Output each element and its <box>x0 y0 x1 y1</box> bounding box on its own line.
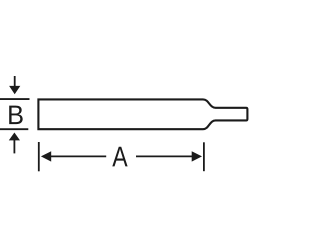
dimension B down arrowhead <box>9 86 20 94</box>
label A <box>112 147 127 167</box>
dimension B bottom extension line <box>0 128 28 130</box>
dimension A left extension line <box>38 142 40 171</box>
dimension A left arrowhead <box>41 151 51 161</box>
file body outline with tang <box>38 99 247 129</box>
dimension A left shaft <box>51 155 107 157</box>
dimension A right shaft <box>136 155 193 157</box>
dimension B up arrow stem <box>13 140 15 154</box>
label B <box>9 106 22 125</box>
dimension B top extension line <box>0 98 30 100</box>
dimension B up arrowhead <box>9 133 20 141</box>
dimension A right arrowhead <box>192 151 202 161</box>
dimension A right extension line <box>203 142 205 171</box>
dimension B down arrow stem <box>14 76 16 87</box>
